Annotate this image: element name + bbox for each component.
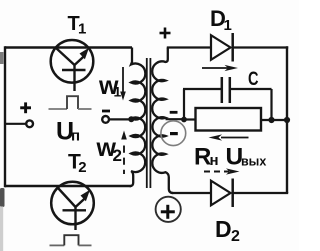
capacitor loop right vertical [270,89,272,120]
diode D2 [211,179,233,208]
circled plus output polarity [156,197,181,222]
transistor T1 [51,40,94,91]
arrow current below D1 (right) [202,65,238,71]
wire bottom left rail [5,185,131,187]
svg-text:1: 1 [78,21,86,38]
wire secondary top to D1 [167,46,211,48]
svg-text:2: 2 [78,159,86,176]
diode D1 [211,33,233,62]
svg-text:C: C [248,69,259,90]
wire cap left [183,88,222,90]
wire Rn to rail [261,119,287,121]
wire - terminal to primary centre tap [109,118,132,120]
svg-text:п: п [71,128,80,145]
scan smudge bottom left tail [0,206,3,251]
minus sign secondary tap [170,111,178,114]
wire cap right [230,88,272,90]
transformer core [146,58,148,188]
svg-text:вых: вых [241,155,266,169]
wire tap node to Rn [184,118,196,120]
svg-text:D: D [215,216,232,242]
wire top left rail [5,46,132,48]
plus sign secondary top [160,28,171,39]
transistor T2 [51,182,94,230]
minus sign supply [102,110,110,113]
wire D2 to right rail [233,192,289,194]
transformer secondary winding [152,48,173,194]
arrow W2 current (dashed, up) [121,131,127,175]
svg-text:2: 2 [113,146,122,165]
supply + terminal stub wire [5,123,27,125]
arrow W1 current (solid, down) [120,67,126,101]
node cap junction [268,117,274,123]
wire left rail [4,46,6,187]
svg-text:н: н [210,152,219,169]
pulse symbol under T1 [49,96,92,109]
node rail junction [284,117,290,123]
wire secondary centre tap to output node [166,118,185,120]
pulse symbol under T2 [50,235,92,245]
node primary centre tap [128,116,134,122]
svg-text:2: 2 [231,228,240,245]
wire D1 to right rail [233,46,289,48]
supply + terminal [26,120,33,127]
circled minus output polarity [161,121,186,146]
wire right rail [286,46,288,193]
capacitor C plates [221,77,224,103]
transformer primary winding W2 [130,117,146,186]
wire secondary bottom to D2 [172,192,211,194]
svg-text:1: 1 [224,17,232,34]
arrow current below Rn (left) [209,134,249,140]
scan smudge left edge top [0,52,4,64]
transformer primary winding W1 [131,48,145,120]
node output minus [181,117,187,123]
scan smudge left edge mid [0,188,5,207]
capacitor loop left vertical [183,89,185,120]
arrow current above D2 (dashed, right) [204,168,240,174]
supply - terminal [102,116,109,123]
resistor Rn box [196,108,262,131]
plus sign supply [20,102,31,113]
